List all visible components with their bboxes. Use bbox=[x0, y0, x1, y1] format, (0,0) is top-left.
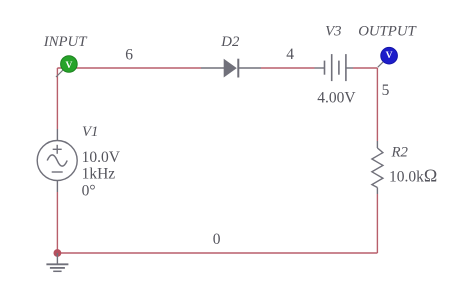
probe OUTPUT pointer bbox=[378, 61, 384, 67]
svg-text:5: 5 bbox=[382, 82, 390, 99]
svg-text:D2: D2 bbox=[220, 34, 240, 50]
svg-text:V: V bbox=[386, 51, 393, 61]
wire: top horizontal net 6 (input corner to diode anode) bbox=[57, 67, 201, 69]
probe INPUT circle bbox=[61, 56, 78, 73]
svg-text:6: 6 bbox=[125, 47, 133, 64]
svg-text:V: V bbox=[65, 61, 72, 71]
resistor R2 bottom lead bbox=[376, 188, 378, 195]
ground bar 3 bbox=[53, 270, 61, 272]
probe INPUT pointer bbox=[56, 70, 63, 77]
ac source V1 plus sign bbox=[56, 145, 58, 154]
ac source V1 minus sign bbox=[52, 171, 63, 173]
ac source V1 top lead bbox=[56, 129, 58, 141]
svg-text:OUTPUT: OUTPUT bbox=[358, 24, 417, 40]
ground stem bbox=[56, 253, 58, 264]
svg-text:V1: V1 bbox=[82, 124, 98, 140]
diode D2 triangle bbox=[224, 59, 237, 78]
svg-text:0°: 0° bbox=[82, 182, 96, 199]
diode D2 anode lead bbox=[201, 67, 224, 69]
wire: right vertical from output corner to R2 top bbox=[376, 68, 378, 141]
ac source V1 circle bbox=[37, 141, 77, 181]
svg-text:4: 4 bbox=[286, 46, 294, 63]
svg-text:R2: R2 bbox=[391, 145, 409, 161]
resistor R2 zigzag bbox=[372, 148, 383, 188]
svg-text:10.0kΩ: 10.0kΩ bbox=[389, 165, 437, 185]
wire: net 4 between diode cathode and battery V3 bbox=[261, 67, 315, 69]
diode D2 cathode bar bbox=[237, 59, 239, 78]
ac source V1 sine wave bbox=[47, 155, 67, 166]
ground junction dot bbox=[54, 249, 62, 257]
ground bar 1 bbox=[46, 263, 68, 265]
svg-text:10.0V: 10.0V bbox=[82, 149, 121, 166]
battery V3 plate 2 tall bbox=[331, 54, 333, 81]
svg-text:4.00V: 4.00V bbox=[317, 90, 356, 107]
svg-text:INPUT: INPUT bbox=[43, 34, 89, 50]
battery V3 plate 3 short bbox=[338, 61, 340, 75]
wire: left vertical from input corner down to V1 top bbox=[56, 68, 58, 129]
battery V3 plate 1 short bbox=[324, 61, 326, 75]
resistor R2 top lead bbox=[376, 141, 378, 148]
battery V3 plate 4 tall bbox=[345, 54, 347, 81]
ac source V1 bottom lead bbox=[56, 181, 58, 193]
wire: net 5 from battery to output corner bbox=[353, 67, 378, 69]
wire: bottom horizontal net 0 bbox=[57, 252, 377, 254]
svg-text:1kHz: 1kHz bbox=[82, 166, 116, 183]
battery V3 left lead bbox=[315, 67, 325, 69]
wire: left vertical from V1 bottom to ground junction bbox=[56, 192, 58, 253]
battery V3 right lead bbox=[346, 67, 353, 69]
svg-text:V3: V3 bbox=[325, 24, 341, 40]
ground bar 2 bbox=[50, 267, 65, 269]
probe OUTPUT circle bbox=[381, 47, 398, 64]
wire: right vertical from R2 bottom to bottom net bbox=[376, 194, 378, 253]
svg-text:0: 0 bbox=[213, 231, 221, 248]
diode D2 cathode lead bbox=[238, 67, 261, 69]
